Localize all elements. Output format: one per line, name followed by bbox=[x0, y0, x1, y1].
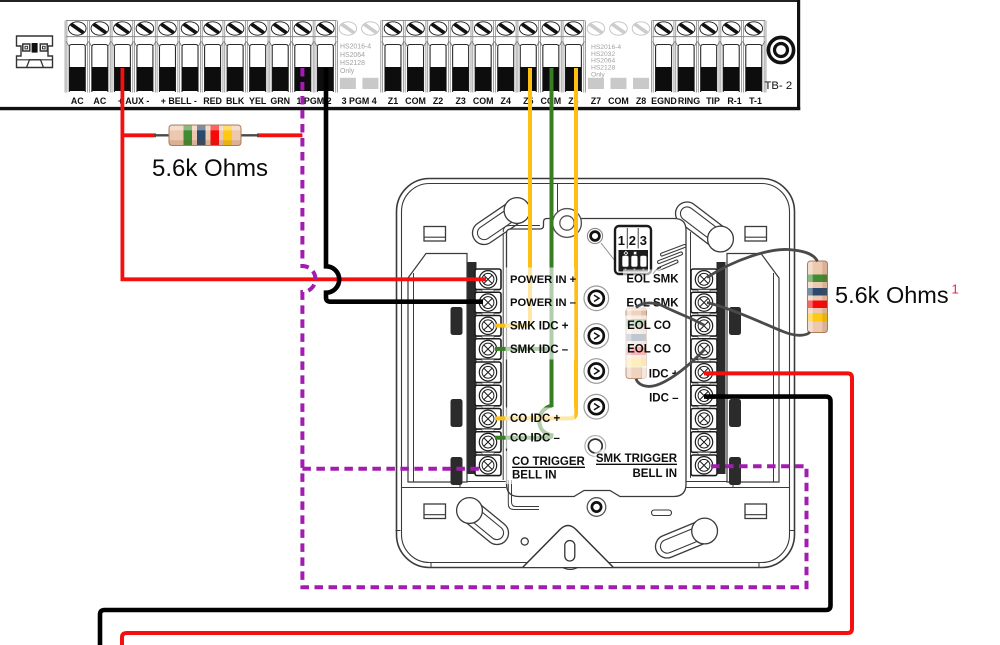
svg-text:POWER IN +: POWER IN + bbox=[510, 274, 577, 286]
svg-text:1: 1 bbox=[952, 282, 959, 297]
svg-text:+ BELL -: + BELL - bbox=[161, 96, 197, 106]
svg-text:R-1: R-1 bbox=[727, 96, 741, 106]
svg-text:BELL IN: BELL IN bbox=[512, 469, 557, 481]
svg-text:HS2016-4: HS2016-4 bbox=[340, 44, 371, 51]
svg-text:TIP: TIP bbox=[706, 96, 720, 106]
svg-text:RED: RED bbox=[203, 96, 222, 106]
svg-text:COM: COM bbox=[473, 96, 494, 106]
svg-text:Only: Only bbox=[591, 71, 605, 78]
svg-text:EGND: EGND bbox=[651, 96, 677, 106]
svg-text:CO IDC –: CO IDC – bbox=[510, 433, 560, 445]
svg-text:CO IDC +: CO IDC + bbox=[510, 413, 560, 425]
svg-text:EOL CO: EOL CO bbox=[627, 320, 671, 332]
svg-text:3: 3 bbox=[640, 233, 647, 248]
svg-text:SMK TRIGGER: SMK TRIGGER bbox=[596, 453, 678, 465]
svg-text:TB- 2: TB- 2 bbox=[765, 80, 793, 92]
svg-text:GRN: GRN bbox=[270, 96, 290, 106]
svg-text:AC: AC bbox=[93, 96, 106, 106]
svg-text:YEL: YEL bbox=[249, 96, 267, 106]
svg-text:SMK IDC –: SMK IDC – bbox=[510, 344, 569, 356]
svg-text:CO TRIGGER: CO TRIGGER bbox=[512, 456, 586, 468]
svg-text:5.6k Ohms: 5.6k Ohms bbox=[835, 282, 949, 308]
svg-text:Z1: Z1 bbox=[388, 96, 398, 106]
svg-text:COM: COM bbox=[608, 96, 629, 106]
svg-text:EOL SMK: EOL SMK bbox=[626, 274, 679, 286]
svg-text:BLK: BLK bbox=[226, 96, 245, 106]
svg-text:2: 2 bbox=[629, 233, 636, 248]
svg-text:1: 1 bbox=[618, 233, 625, 248]
svg-text:RING: RING bbox=[678, 96, 700, 106]
svg-text:Z4: Z4 bbox=[501, 96, 511, 106]
svg-text:POWER IN –: POWER IN – bbox=[510, 297, 576, 309]
svg-text:Z7: Z7 bbox=[591, 96, 601, 106]
svg-text:BELL IN: BELL IN bbox=[632, 468, 677, 480]
svg-text:SMK IDC +: SMK IDC + bbox=[510, 321, 569, 333]
svg-text:T-1: T-1 bbox=[749, 96, 762, 106]
svg-text:5.6k Ohms: 5.6k Ohms bbox=[152, 155, 268, 182]
svg-text:Z3: Z3 bbox=[455, 96, 465, 106]
svg-text:Z8: Z8 bbox=[636, 96, 646, 106]
svg-text:HS2128: HS2128 bbox=[340, 60, 365, 67]
svg-text:Only: Only bbox=[340, 68, 355, 75]
svg-text:IDC –: IDC – bbox=[649, 393, 679, 405]
svg-text:COM: COM bbox=[405, 96, 426, 106]
svg-text:AC: AC bbox=[71, 96, 84, 106]
svg-text:3 PGM 4: 3 PGM 4 bbox=[342, 96, 377, 106]
svg-text:HS2064: HS2064 bbox=[340, 52, 365, 59]
svg-text:Z2: Z2 bbox=[433, 96, 443, 106]
svg-text:EOL CO: EOL CO bbox=[627, 344, 671, 356]
